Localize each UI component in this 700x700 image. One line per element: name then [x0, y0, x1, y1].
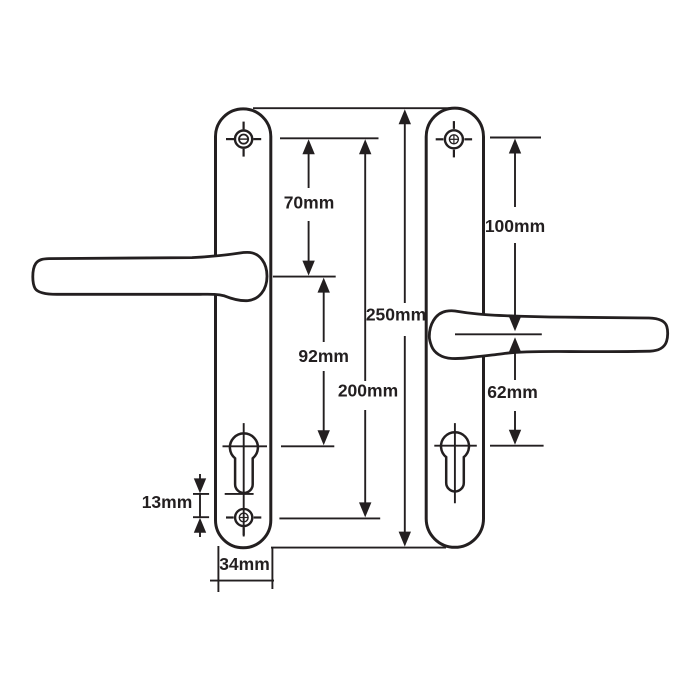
- svg-text:92mm: 92mm: [298, 346, 349, 366]
- svg-text:200mm: 200mm: [338, 381, 398, 401]
- svg-text:34mm: 34mm: [219, 554, 270, 574]
- svg-text:13mm: 13mm: [142, 492, 193, 512]
- svg-text:70mm: 70mm: [284, 193, 335, 213]
- svg-text:100mm: 100mm: [485, 216, 545, 236]
- svg-text:250mm: 250mm: [366, 305, 426, 325]
- svg-text:62mm: 62mm: [487, 382, 538, 402]
